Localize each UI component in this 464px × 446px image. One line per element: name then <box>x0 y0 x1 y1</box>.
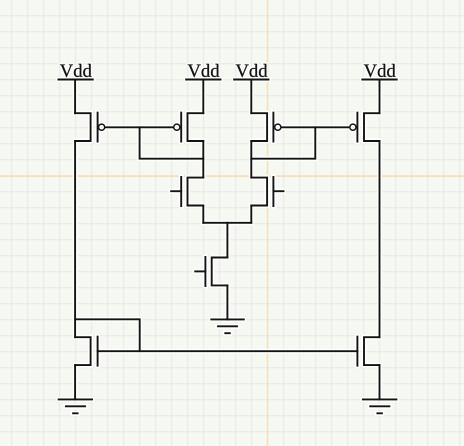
bubble M2 gate <box>174 124 180 130</box>
transistor M4 gate bar <box>356 113 358 142</box>
wire common node to tail drain <box>226 223 228 258</box>
label Vdd2 <box>188 64 220 77</box>
wire M4 drain rail down <box>379 141 381 337</box>
transistor M7 gate bar <box>204 257 206 286</box>
wire M2 drain rail down <box>202 141 204 178</box>
power Vdd4 bar <box>362 79 396 81</box>
wire Vdd1 to M1 source <box>74 80 76 114</box>
transistor M3 gate bar <box>272 113 274 142</box>
wire M9 source to ground <box>379 365 381 399</box>
bubble M4 gate <box>350 124 356 130</box>
wire gate net left (M1 bubble to M2 bubble) <box>106 126 173 128</box>
transistor M7 (tail NMOS) channel and stubs <box>212 258 228 286</box>
wire M8 source to ground <box>74 365 76 399</box>
ground middle <box>211 319 244 333</box>
transistor M5 gate bar <box>180 177 182 206</box>
wire M7 source to ground <box>226 285 228 319</box>
wire mirror gate net (M8 gate to M9 gate) <box>98 350 358 352</box>
label halo casing <box>60 64 396 77</box>
transistor M1 gate bar <box>97 113 99 142</box>
wire junction J2 down to right output rail <box>251 127 315 158</box>
transistor M5 (NMOS pair left) channel and stubs <box>188 178 204 206</box>
wire M1 drain rail down <box>74 141 76 337</box>
power Vdd1 bar <box>58 79 92 81</box>
bubble M1 gate <box>99 124 105 130</box>
wire M7 gate lead <box>195 270 205 272</box>
wire white halo casing <box>58 80 396 414</box>
ground left <box>59 399 93 413</box>
label Vdd4 <box>364 64 396 77</box>
wire Vdd4 to M4 source <box>379 80 381 114</box>
wire M5 gate lead <box>171 190 181 192</box>
wire gate net right (M3 bubble to M4 bubble) <box>282 126 349 128</box>
label Vdd1 <box>60 64 92 77</box>
transistor M8 gate bar <box>97 337 99 366</box>
wire Vdd2 to M2 source <box>202 80 204 114</box>
power Vdd2 bar <box>186 79 220 81</box>
wire junction J1 down to left output rail <box>140 127 204 158</box>
transistor M4 (PMOS right) channel and stubs <box>364 113 380 141</box>
wire M5 source rail down <box>202 206 204 223</box>
transistor M6 gate bar <box>272 177 274 206</box>
transistor M1 (PMOS left) channel and stubs <box>75 113 91 141</box>
transistor M2 (PMOS mid-left) channel and stubs <box>188 113 204 141</box>
bubble M3 gate <box>275 124 281 130</box>
transistor M8 (NMOS bottom left) channel and stubs <box>75 337 91 365</box>
wire Vdd3 to M3 source <box>250 80 252 114</box>
wire M3 drain rail down <box>250 141 252 178</box>
wire left mirror junction <box>75 319 140 351</box>
transistor M3 (PMOS mid-right) channel and stubs <box>251 113 267 141</box>
wire M6 source rail down <box>250 206 252 223</box>
wire M6 gate lead <box>273 190 283 192</box>
transistor M6 (NMOS pair right) channel and stubs <box>251 178 267 206</box>
ground right <box>363 399 397 413</box>
axis line horizontal (orange) <box>0 175 464 177</box>
axis line vertical (orange) <box>267 0 269 446</box>
transistor M9 (NMOS bottom right) channel and stubs <box>364 337 380 365</box>
transistor M2 gate bar <box>180 113 182 142</box>
label Vdd3 <box>236 64 268 77</box>
power Vdd3 bar <box>234 79 268 81</box>
wire common source node <box>203 222 251 224</box>
transistor M9 gate bar <box>356 337 358 366</box>
